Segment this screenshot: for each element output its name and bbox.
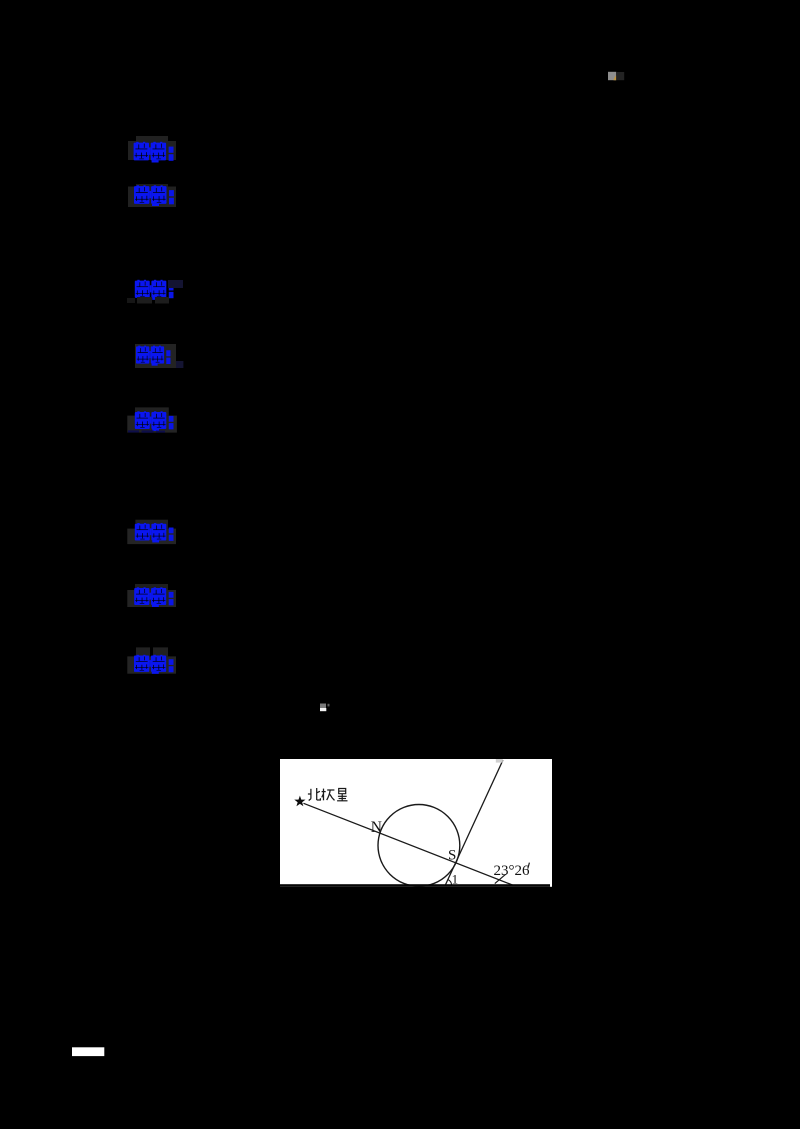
label 8 highlight band (upper right)	[153, 647, 168, 656]
label 1 highlight band (upper)	[136, 136, 168, 142]
label 8 highlight band (upper left)	[136, 647, 150, 656]
label 5 blue text	[135, 411, 174, 431]
polaris sight line	[304, 803, 514, 885]
top-right small icon: orange corner	[614, 75, 617, 80]
label 4 blue text	[136, 346, 171, 366]
angle arc at horizon	[448, 880, 452, 886]
svg-text:S: S	[448, 848, 456, 864]
small mid-page icon: white bottom	[320, 708, 326, 711]
label 4 navy block	[176, 361, 183, 368]
label 6 blue text	[135, 523, 174, 542]
bottom-left white rectangle	[72, 1047, 104, 1056]
label 6 highlight band (main)	[127, 529, 176, 545]
label 1 highlight band (main)	[128, 141, 176, 160]
tick mark on sight line	[495, 874, 506, 883]
label 3 lower band left	[127, 298, 135, 303]
horizon line	[280, 884, 550, 887]
label 1 blue text	[134, 142, 174, 163]
label 3 lower band right	[155, 297, 169, 304]
top-right small icon: light half	[608, 72, 616, 80]
gray notch above axis exit	[496, 759, 503, 763]
label 7 highlight band (upper)	[135, 584, 168, 590]
label 8 blue text	[134, 655, 174, 674]
label 2 blue text	[134, 185, 174, 206]
CJK label "ji" of 北极星	[322, 789, 335, 801]
label 2 highlight band (upper)	[136, 184, 168, 187]
celestial axis line	[445, 760, 503, 885]
label 3 navy block	[168, 280, 183, 288]
CJK label "xing" of 北极星	[337, 789, 347, 801]
label 8 highlight band (main)	[127, 656, 176, 673]
label 5 highlight band (main)	[127, 416, 177, 433]
label 7 blue text	[134, 587, 173, 607]
svg-text:N: N	[371, 819, 382, 836]
label 5 navy underline	[128, 430, 139, 432]
label 2 highlight band (main)	[128, 187, 176, 208]
earth circle	[378, 805, 460, 887]
small mid-page icon: right nub	[328, 704, 330, 707]
diagram white box	[280, 759, 552, 887]
label 6 highlight band (upper)	[135, 520, 168, 529]
svg-text:23°26: 23°26	[494, 863, 530, 879]
label 3 lower band mid	[137, 297, 152, 304]
svg-text:1: 1	[452, 871, 459, 886]
label 7 highlight band (main)	[127, 590, 176, 607]
top-right small icon: dark half	[616, 72, 624, 80]
prime mark	[528, 863, 530, 869]
small mid-page icon: gray top	[320, 704, 326, 709]
label 4 highlight band	[135, 344, 176, 368]
label 5 highlight band (upper)	[135, 407, 169, 415]
star symbol (Polaris)	[294, 796, 305, 807]
CJK label "bei" of 北极星	[308, 788, 321, 801]
label 3 blue text	[135, 280, 174, 300]
